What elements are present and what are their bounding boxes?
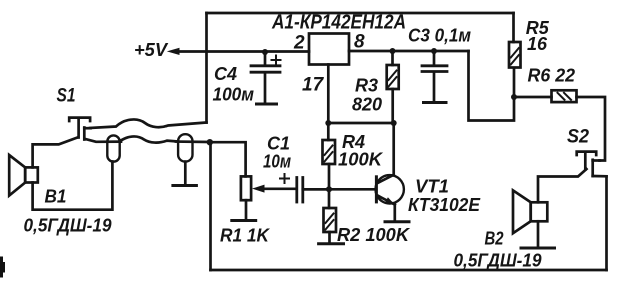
svg-text:S1: S1 — [57, 85, 76, 107]
svg-text:16: 16 — [527, 34, 548, 54]
ground bar under connector X2 — [173, 184, 197, 187]
wire R2 bottom stub — [328, 232, 331, 243]
wire R4 bottom stub — [328, 164, 331, 189]
svg-text:R3: R3 — [355, 76, 378, 96]
wire S1 to supply (upper line with flex bump) — [90, 119, 207, 128]
transistor VT1 collector diagonal — [378, 175, 394, 183]
wire output branch down-right to R5/R6 node — [469, 51, 515, 121]
ground bar under B2 — [521, 247, 555, 250]
ground bar under R2 — [319, 242, 344, 245]
wire R5 bottom to node — [513, 68, 516, 97]
svg-text:R1 1K: R1 1K — [220, 226, 271, 246]
svg-text:В2: В2 — [485, 229, 504, 249]
wire regulator pin8 output — [349, 50, 469, 53]
wire B1 bottom loop to connector X1 — [33, 162, 113, 210]
wire base node to transistor base — [304, 188, 375, 191]
C1 right plate to base node — [303, 188, 329, 191]
svg-text:S2: S2 — [567, 126, 589, 148]
C4 plus sign — [272, 56, 281, 65]
wire left supply vertical — [205, 13, 208, 123]
wire R5 top to rail — [512, 13, 515, 42]
C1 plus sign — [280, 174, 289, 183]
junction node C4/+5V — [262, 49, 268, 55]
capacitor C3 0.1u plates — [422, 66, 447, 72]
wire lower line between connectors (flex bump) — [120, 136, 178, 142]
junction node R3 bottom/collector — [391, 120, 397, 126]
wire R3 bottom stub — [391, 89, 394, 123]
resistor R5 16 — [509, 42, 521, 68]
svg-text:820: 820 — [352, 95, 382, 115]
wire C3 bottom stub — [433, 73, 436, 102]
ground bar under C4 — [257, 103, 277, 106]
wire R3 top stub — [391, 51, 394, 65]
ground bar under VT1 emitter — [385, 220, 409, 223]
junction node base — [326, 186, 332, 192]
svg-text:0,5ГДШ-19: 0,5ГДШ-19 — [24, 216, 112, 236]
wire pin17 node to R3 bottom / collector node — [328, 122, 393, 125]
ground bar under R1 — [232, 219, 256, 222]
resistor R3 820 — [387, 65, 399, 89]
wire top supply rail — [207, 12, 514, 15]
wire C4 bottom stub — [264, 73, 267, 103]
svg-text:В1: В1 — [45, 187, 67, 207]
wire S2 contact to right vertical — [593, 175, 607, 178]
svg-text:100K: 100K — [338, 150, 384, 170]
junction node pin17/R4 — [325, 120, 331, 126]
connector X1 (plug on line) — [107, 135, 119, 161]
wire C4 top stub — [264, 52, 267, 65]
wire R4 top stub — [327, 123, 330, 140]
wire R1 bottom stub — [245, 200, 248, 219]
regulator A1 KR142EN12A box — [309, 34, 349, 65]
potentiometer R1 wiper arrow — [252, 185, 297, 193]
capacitor C1 10u electrolytic plates — [297, 178, 303, 203]
transistor VT1 base bar — [375, 177, 378, 202]
svg-text:VT1: VT1 — [415, 176, 449, 196]
svg-text:C1: C1 — [267, 134, 290, 154]
wire lower line node to R1 branch — [210, 142, 246, 176]
svg-text:2: 2 — [293, 33, 305, 54]
wire right vertical to S2 net — [605, 176, 608, 270]
transistor VT1 circle — [376, 175, 404, 203]
svg-text:10м: 10м — [263, 152, 291, 172]
wire C3 top stub — [433, 51, 436, 65]
svg-text:17: 17 — [302, 75, 325, 96]
resistor R4 100K — [323, 140, 336, 164]
resistor R2 100K — [324, 208, 337, 232]
pushbutton S2 — [577, 152, 600, 176]
junction node lower line — [207, 139, 213, 145]
potentiometer R1 1K body — [241, 176, 251, 200]
resistor R6 22 — [552, 90, 577, 102]
scan artifact left edge — [0, 257, 3, 278]
transistor VT1 emitter lead — [393, 205, 396, 221]
svg-text:С4: С4 — [214, 64, 237, 84]
svg-text:А1-КР142ЕН12А: А1-КР142ЕН12А — [271, 12, 406, 34]
svg-text:8: 8 — [354, 32, 365, 53]
wire pin 17 — [327, 65, 330, 124]
wire B2 top terminal to S2 — [538, 169, 587, 202]
junction node R3 top — [390, 48, 396, 54]
wire connector X2 to node — [176, 140, 210, 143]
svg-text:100м: 100м — [213, 85, 255, 105]
connector X2 (plug on line) — [178, 134, 192, 161]
wire +5V feed — [177, 50, 309, 53]
wire S1 contact to lower line — [86, 139, 122, 142]
ground bar under C3 — [424, 101, 447, 104]
svg-text:+5V: +5V — [134, 40, 169, 60]
capacitor C4 100u electrolytic plates — [251, 66, 280, 72]
wire node to R6 — [514, 96, 552, 99]
wire collector — [392, 123, 395, 175]
wire B2 bottom stub — [537, 221, 540, 247]
svg-text:R2 100K: R2 100K — [337, 225, 411, 245]
wire B1 top terminal — [33, 138, 78, 168]
speaker B2 — [513, 190, 547, 233]
junction node R5/R6 — [511, 94, 517, 100]
wire R2 top stub — [328, 189, 331, 208]
svg-text:0,5ГДШ-19: 0,5ГДШ-19 — [454, 251, 542, 271]
+5V arrow head — [167, 48, 180, 55]
wire bottom rail — [211, 269, 607, 272]
junction node C3 top — [431, 48, 437, 54]
speaker B1 — [9, 155, 38, 196]
wire R6 to S2 upper contact — [577, 97, 606, 161]
svg-text:R6 22: R6 22 — [528, 66, 576, 86]
svg-text:КТ3102Е: КТ3102Е — [408, 195, 481, 215]
wire left common vertical to bottom rail — [209, 142, 212, 270]
transistor VT1 emitter diagonal with arrow — [378, 196, 395, 205]
wire connector X2 pin down — [184, 162, 187, 184]
pushbutton S1 — [69, 118, 90, 140]
svg-text:С3 0,1м: С3 0,1м — [408, 26, 471, 46]
